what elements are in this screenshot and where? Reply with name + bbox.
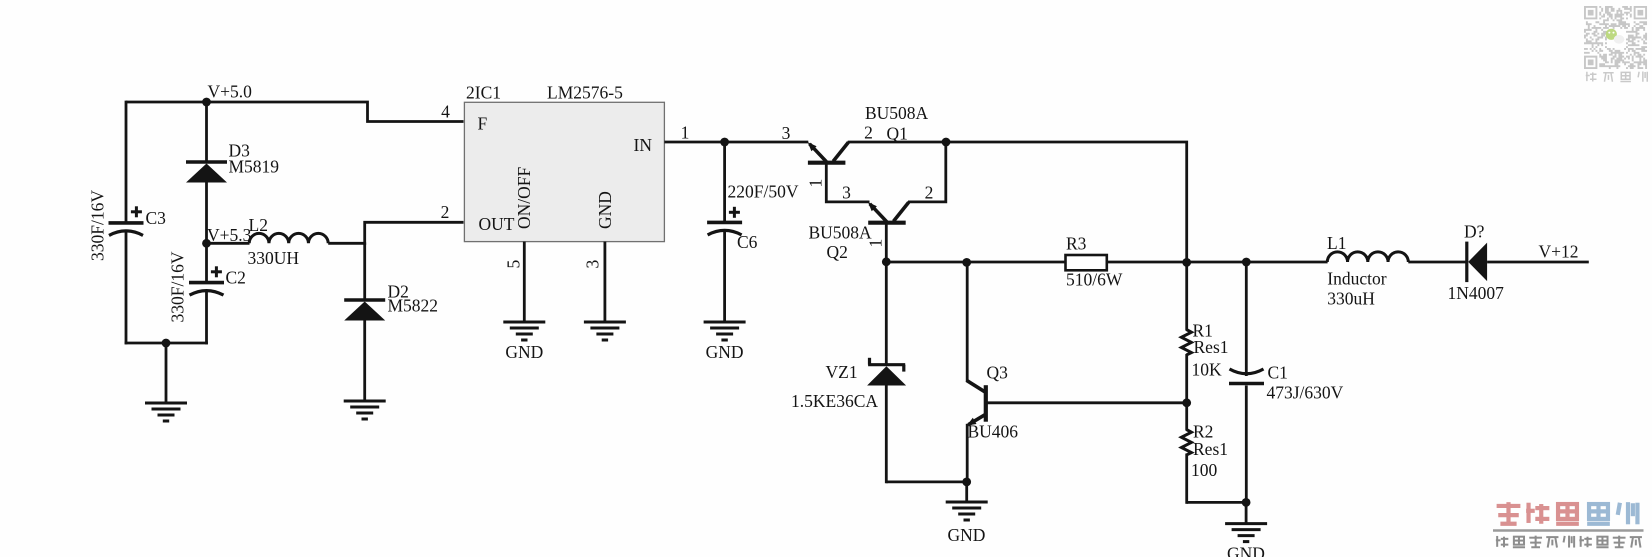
watermark tagline (1496, 536, 1498, 547)
diode D3 bottom lead wire (205, 181, 208, 245)
ground symbol at IC pin 5 (503, 321, 545, 324)
zener diode VZ1 cathode bar with bent ends (868, 363, 905, 366)
svg-text:510/6W: 510/6W (1066, 270, 1123, 290)
watermark logo text blue part (1589, 504, 1608, 519)
node V+5.3 junction dot (202, 239, 211, 248)
wire R3 right to R1 tap (1107, 261, 1188, 264)
capacitor C1 top lead wire (1245, 262, 1248, 376)
wire L2 right to T junction (328, 242, 366, 245)
svg-text:4: 4 (441, 102, 450, 122)
svg-text:1.5KE36CA: 1.5KE36CA (791, 391, 878, 411)
wire riser from L2/D2 T-junction up to IC OUT pin (365, 222, 464, 244)
svg-text:1N4007: 1N4007 (1448, 283, 1505, 303)
ground symbol under D2 (344, 400, 386, 403)
capacitor C3 polarity + (131, 210, 142, 213)
transistor Q3 collector stroke (967, 380, 985, 392)
svg-text:C3: C3 (146, 208, 167, 228)
svg-text:2: 2 (441, 202, 450, 222)
diode D3 top lead wire (205, 102, 208, 163)
wire mid rail from Q2 base to R3 (886, 261, 1067, 264)
svg-text:330F/16V: 330F/16V (168, 251, 188, 322)
svg-text:ON/OFF: ON/OFF (514, 166, 534, 229)
wire zener VZ1 top lead from Q2 base junction (885, 262, 888, 366)
svg-text:GND: GND (1227, 544, 1265, 557)
junction dot at R1/R2 divider tap (1182, 398, 1191, 407)
transistor Q3 base bar (vertical) (984, 385, 988, 422)
watermark QR code top-right (1584, 6, 1647, 69)
svg-text:473J/630V: 473J/630V (1267, 383, 1344, 403)
IC pin 3 wire to ground (604, 242, 607, 322)
capacitor C6 polarity + (729, 211, 740, 214)
transistor Q3 emitter arrow (968, 415, 985, 425)
svg-text:VZ1: VZ1 (826, 362, 858, 382)
wire R2 top lead (1185, 403, 1188, 431)
svg-text:2: 2 (864, 123, 873, 143)
wire V+5.0 rail from C3 top to IC pin F (stepped) (126, 102, 464, 122)
wire Q1 collector to top rail (848, 141, 948, 144)
ground symbol bottom-right (1245, 502, 1248, 523)
wire R1 top lead (1185, 262, 1188, 331)
svg-text:330F/16V: 330F/16V (88, 190, 108, 261)
resistor R1 zigzag (1181, 330, 1191, 356)
svg-text:BU406: BU406 (968, 422, 1019, 442)
zener diode VZ1 triangle (867, 366, 906, 385)
wire IN pin to Q1 emitter (664, 141, 808, 144)
svg-text:BU508A: BU508A (865, 103, 929, 123)
capacitor C2 top lead wire (205, 243, 208, 283)
svg-text:330UH: 330UH (248, 248, 300, 268)
svg-text:BU508A: BU508A (809, 223, 873, 243)
wire C2 bottom to ground bus (205, 291, 208, 344)
capacitor C3 (109, 221, 144, 225)
diode D? 1N4007 (cathode bar left, triangle pointing left) (1465, 242, 1468, 283)
svg-text:M5822: M5822 (388, 296, 439, 316)
capacitor C1 curved plate (1230, 369, 1264, 374)
capacitor C2 (189, 281, 224, 285)
svg-text:10K: 10K (1192, 360, 1223, 380)
svg-text:LM2576-5: LM2576-5 (547, 83, 623, 103)
svg-text:3: 3 (842, 183, 851, 203)
wire bottom-left ground bus (125, 342, 208, 345)
diode D2 (cathode bar up, triangle pointing up) (344, 298, 385, 302)
IC pin 5 wire to ground (523, 242, 526, 322)
wire C6 bottom lead to ground (723, 231, 726, 322)
capacitor C1 straight plate (1229, 382, 1264, 386)
svg-text:GND: GND (505, 342, 543, 362)
wire Q2 collector up to top rail (908, 142, 946, 202)
svg-text:C2: C2 (226, 268, 246, 288)
transistor Q2 collector stroke (894, 202, 909, 221)
junction dot at C6 tap (720, 138, 729, 147)
capacitor C1 bottom lead wire (1245, 386, 1248, 504)
svg-text:F: F (478, 114, 488, 134)
capacitor C2 polarity + (211, 270, 222, 273)
svg-text:2: 2 (925, 183, 934, 203)
wire V+5.3 to inductor L2 (205, 242, 249, 245)
ground symbol under C6 (704, 321, 746, 324)
transistor Q1 base bar (808, 161, 846, 165)
watermark WeChat icon in QR center (1606, 29, 1617, 40)
inductor L1 coil (1327, 252, 1408, 262)
ground symbol at Q3 emitter (965, 482, 968, 502)
svg-text:3: 3 (782, 123, 791, 143)
svg-text:1: 1 (865, 239, 885, 248)
svg-text:R3: R3 (1066, 234, 1087, 254)
wire VZ1 bottom lead (885, 384, 888, 483)
ground symbol at IC pin 3 (584, 321, 626, 324)
wire Q3 base to R1/R2 divider (986, 401, 1188, 404)
wire ground stem bottom-left (165, 343, 168, 403)
capacitor C6 (707, 221, 742, 225)
svg-text:GND: GND (706, 342, 744, 362)
svg-text:L1: L1 (1327, 233, 1346, 253)
resistor R2 zigzag (1181, 430, 1191, 456)
svg-text:V+5.0: V+5.0 (208, 82, 253, 102)
wire mid rail to C1 tap (1187, 261, 1248, 264)
node V+5.0 junction dot (202, 98, 211, 107)
watermark logo underline (1493, 529, 1644, 531)
svg-text:Q1: Q1 (887, 124, 908, 144)
svg-text:2IC1: 2IC1 (466, 83, 501, 103)
svg-text:OUT: OUT (479, 214, 515, 234)
diode D3 (cathode bar up, triangle pointing up) (186, 160, 227, 164)
svg-text:Q2: Q2 (827, 242, 848, 262)
transistor Q1 BU508A emitter arrow (810, 144, 827, 162)
wire mid rail to inductor L1 (1246, 261, 1327, 264)
junction dot where Q2 collector joins top rail (942, 138, 951, 147)
svg-text:Inductor: Inductor (1327, 269, 1386, 289)
svg-text:IN: IN (634, 135, 653, 155)
wire bottom rail R2 to C1/ground (1187, 501, 1248, 504)
svg-text:Res1: Res1 (1194, 337, 1229, 357)
wire D2 top lead (363, 243, 366, 301)
op-amp U1 regulator IC body LM2576-5 (464, 102, 664, 241)
junction dot Q2 base / mid rail (882, 257, 891, 266)
transistor Q2 base bar (868, 221, 906, 225)
resistor R3 box style (1066, 255, 1107, 270)
wire R1 bottom to divider tap (1185, 354, 1188, 404)
transistor Q2 BU508A emitter arrow (870, 204, 887, 222)
svg-text:V+12: V+12 (1539, 241, 1579, 261)
wire left branch vertical to C3 (125, 101, 128, 223)
ground symbol bottom-left (145, 402, 187, 405)
svg-text:M5819: M5819 (229, 157, 280, 177)
wire Q3 collector riser from mid rail (966, 262, 969, 382)
svg-text:C6: C6 (737, 232, 758, 252)
junction dot at Q3 collector tap (962, 258, 971, 267)
svg-text:220F/50V: 220F/50V (728, 182, 799, 202)
svg-text:GND: GND (947, 525, 985, 545)
svg-text:330uH: 330uH (1327, 288, 1375, 308)
svg-text:1: 1 (681, 123, 690, 143)
svg-text:1: 1 (805, 179, 825, 188)
watermark logo text red part (1497, 504, 1521, 508)
junction dot at bottom-left ground (162, 339, 171, 348)
svg-text:5: 5 (504, 260, 524, 269)
svg-text:100: 100 (1191, 460, 1218, 480)
wire diode to V+12 terminal (1487, 261, 1589, 264)
wire VZ1 to Q3 emitter ground node (886, 480, 968, 483)
transistor Q1 collector stroke (833, 142, 848, 161)
wire L1 to diode D? (1408, 261, 1467, 264)
svg-text:D?: D? (1464, 222, 1485, 242)
svg-text:3: 3 (583, 260, 603, 269)
wire D2 bottom lead (363, 319, 366, 401)
junction dot at R1 top tap (1182, 258, 1191, 267)
wire top rail to right corner (946, 142, 1187, 264)
watermark text 'WeChat contact' under QR (1586, 72, 1588, 81)
wire C3 bottom to ground bus (125, 232, 128, 345)
wire Q1 base down and right to Q2 emitter (826, 163, 869, 202)
inductor L2 coil (249, 233, 328, 243)
svg-text:C1: C1 (1268, 362, 1288, 382)
junction dot at Q3 ground node (962, 478, 971, 487)
capacitor C6 top lead wire (723, 142, 726, 223)
svg-text:GND: GND (595, 191, 615, 229)
junction dot at bottom-right ground node (1242, 498, 1251, 507)
junction dot at C1 tap (1242, 258, 1251, 267)
wire Q3 emitter down to ground node (966, 424, 969, 484)
wire Q2 base down to mid rail (885, 223, 888, 264)
svg-text:Res1: Res1 (1193, 439, 1228, 459)
svg-text:Q3: Q3 (987, 363, 1009, 383)
svg-text:L2: L2 (249, 215, 268, 235)
wire R2 bottom lead (1185, 454, 1188, 504)
